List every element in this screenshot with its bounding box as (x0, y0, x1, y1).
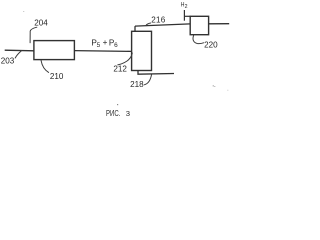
wire drain from bottom of 218 (138, 71, 174, 75)
svg-text:212: 212 (113, 65, 127, 74)
box 218 (132, 31, 152, 70)
svg-text:P5+P6: P5+P6 (91, 38, 118, 49)
svg-text:РИС.: РИС. (106, 109, 120, 118)
svg-text:210: 210 (50, 72, 64, 81)
svg-text:203: 203 (1, 57, 15, 66)
leader 203 (15, 51, 22, 59)
wire line 216 to box 220 (135, 24, 190, 26)
specks right bottom (213, 85, 214, 86)
speck top left area (23, 11, 24, 12)
wire H2 feed horizontal into box 220 (185, 15, 191, 17)
leader 210 (41, 60, 49, 72)
wire from 210 to 218 (74, 50, 131, 53)
leader 216 (146, 23, 151, 26)
wire output right of 220 (209, 23, 230, 25)
svg-text:216: 216 (151, 16, 165, 25)
leader 212 (118, 53, 133, 65)
svg-text:204: 204 (34, 19, 48, 28)
svg-text:H2: H2 (181, 1, 188, 10)
wire input line left (5, 49, 34, 52)
svg-text:3: 3 (126, 109, 130, 118)
speck above caption (117, 104, 118, 105)
leader 204 (30, 27, 37, 43)
box 210 (34, 41, 75, 60)
svg-text:218: 218 (130, 80, 144, 89)
wire riser from top of box 218 (134, 26, 136, 31)
box 220 (190, 16, 208, 34)
leader 220 (193, 35, 204, 43)
svg-text:220: 220 (204, 41, 218, 50)
leader 218 (144, 74, 151, 85)
wire H2 feed vertical (183, 10, 185, 21)
